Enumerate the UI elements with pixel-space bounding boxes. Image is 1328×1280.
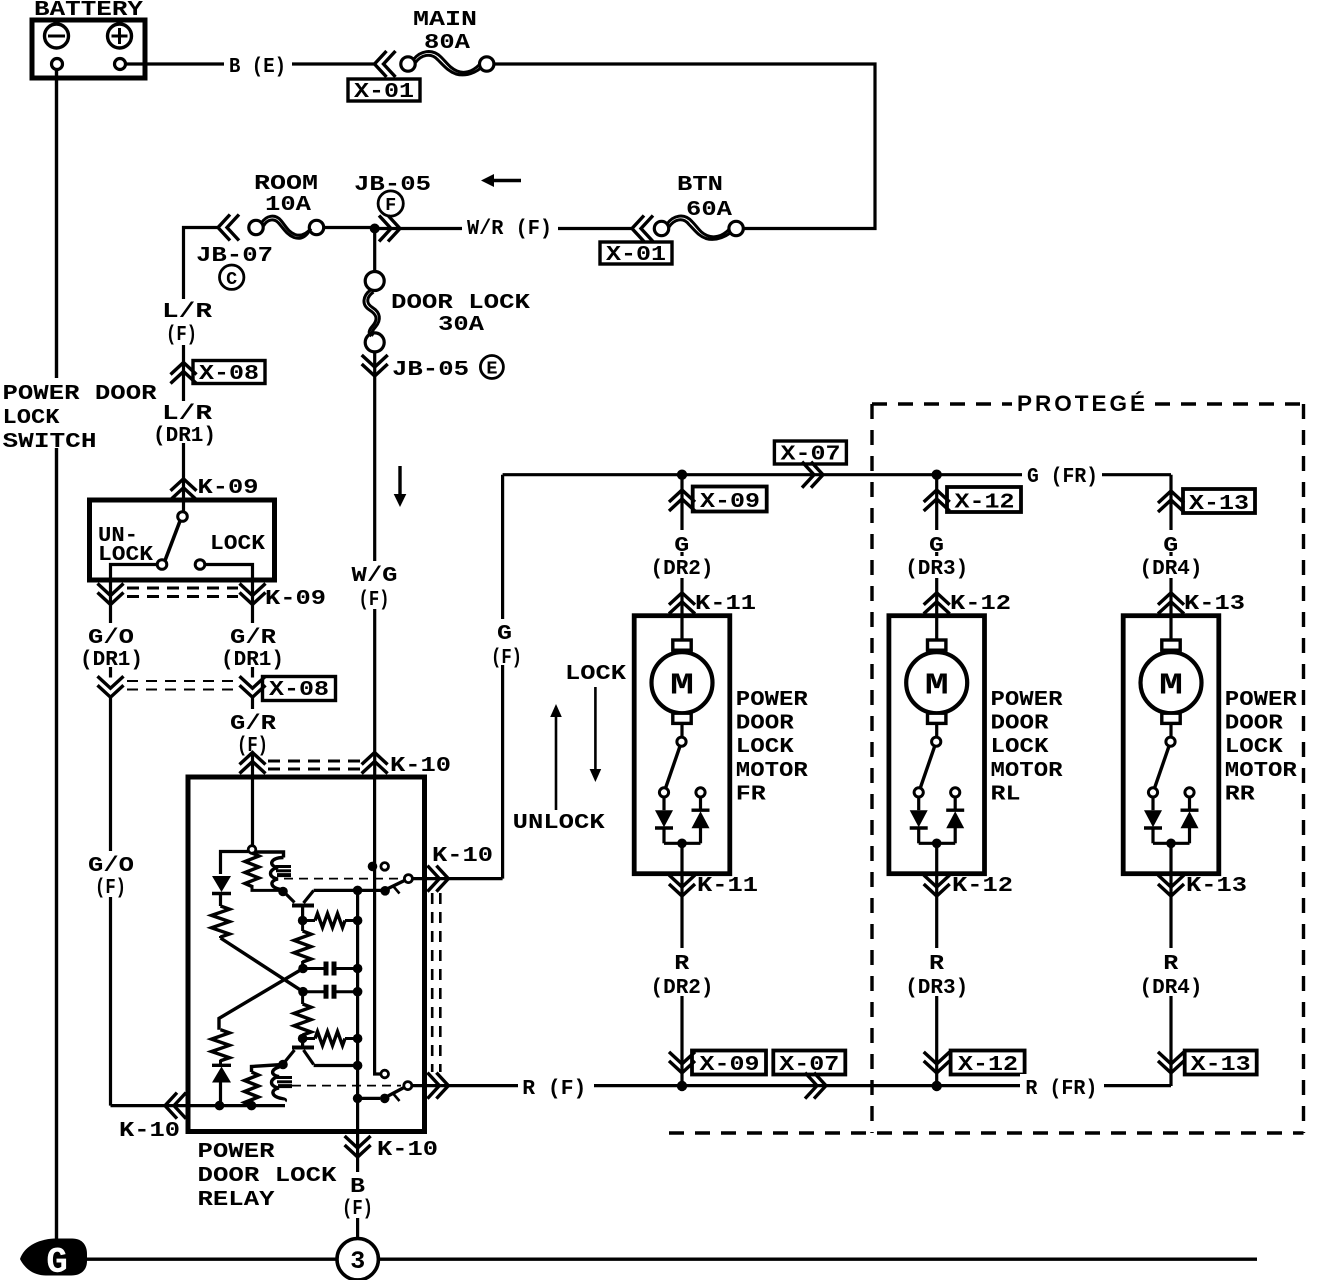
coil2 bottom wire — [250, 1100, 253, 1106]
connector X-12 chevrons (bottom) — [924, 1052, 950, 1073]
wire JB-07 corner — [184, 228, 219, 301]
svg-text:RL: RL — [991, 782, 1021, 806]
svg-text:MOTOR: MOTOR — [1225, 759, 1297, 783]
svg-text:G/R: G/R — [230, 626, 276, 650]
svg-text:G: G — [674, 534, 689, 558]
svg-text:(F): (F) — [342, 1197, 373, 1221]
wire G/R (DR1) — [251, 605, 254, 678]
svg-text:LOCK: LOCK — [3, 406, 60, 430]
fuse MAIN 80A — [401, 57, 415, 71]
battery ground wire (left side) — [55, 70, 58, 1260]
fuse BTN 60A — [729, 221, 743, 235]
connector X-08 chevrons (left) — [98, 676, 124, 697]
switch2 open contact — [381, 1070, 389, 1078]
connector label box X-09 (top) — [693, 487, 767, 512]
capacitor C2 — [298, 987, 308, 997]
svg-text:K-12: K-12 — [950, 592, 1011, 616]
svg-text:(F): (F) — [95, 876, 126, 900]
svg-text:POWER: POWER — [1225, 688, 1297, 712]
battery box — [32, 20, 145, 78]
cross wire B — [219, 969, 303, 1030]
svg-text:K-09: K-09 — [265, 587, 326, 611]
wire into switch — [182, 479, 185, 512]
switch2 moving contact — [380, 1094, 390, 1104]
connector label box X-08 — [263, 677, 336, 701]
switch1 tick — [394, 887, 400, 894]
svg-text:RR: RR — [1225, 782, 1255, 806]
connector label box X-07 (top) — [774, 441, 846, 464]
power door lock motor FR — [634, 616, 730, 874]
svg-text:(DR4): (DR4) — [1140, 557, 1203, 581]
resistor R3 (vertical) — [301, 921, 304, 932]
svg-text:(DR1): (DR1) — [221, 648, 284, 672]
mechanical link dash (coil2 to switch2) — [292, 1085, 401, 1087]
node label L/R (DR1) — [150, 401, 232, 443]
wire C2 to resistor R5 — [301, 992, 304, 1004]
svg-text:K-11: K-11 — [697, 874, 758, 898]
connector label box X-12 (bottom) — [951, 1051, 1025, 1075]
resistor R4 (vertical, left) — [212, 1030, 230, 1061]
svg-text:R (F): R (F) — [522, 1077, 586, 1101]
svg-text:3: 3 — [350, 1247, 365, 1276]
connector X-07 chevrons (top) — [802, 462, 823, 488]
svg-text:LOCK: LOCK — [210, 532, 265, 556]
svg-text:MAIN: MAIN — [413, 8, 477, 32]
svg-text:X-09: X-09 — [700, 490, 760, 514]
svg-text:C: C — [226, 269, 237, 290]
wire R (DR3) — [935, 896, 938, 1086]
svg-text:DOOR LOCK: DOOR LOCK — [391, 291, 530, 315]
svg-text:DOOR LOCK: DOOR LOCK — [198, 1164, 337, 1188]
coil1 top node — [248, 846, 256, 854]
svg-text:(DR1): (DR1) — [80, 648, 143, 672]
svg-text:K-10: K-10 — [432, 844, 493, 868]
connector X-01 chevrons — [375, 51, 396, 77]
annotation UNLOCK with up arrow — [555, 716, 558, 810]
power door lock motor RL — [889, 616, 985, 874]
switch1 lever — [388, 881, 405, 889]
relay bottom internal wire — [188, 1104, 285, 1107]
wire R (DR2) — [680, 896, 683, 1086]
wire R (F) horizontal — [519, 1084, 1171, 1087]
svg-text:R: R — [674, 952, 689, 976]
svg-text:X-13: X-13 — [1191, 1053, 1251, 1077]
B (F) output wire — [356, 1132, 359, 1158]
mechanical link dashes K-09 — [127, 587, 238, 590]
power door lock motor RR — [1123, 616, 1219, 874]
wire G/R (F) down to relay — [251, 697, 254, 752]
wire L/R (F) — [182, 300, 185, 479]
svg-text:K-10: K-10 — [377, 1138, 438, 1162]
svg-text:30A: 30A — [438, 313, 484, 337]
svg-text:(DR3): (DR3) — [905, 976, 968, 1000]
battery minus post — [52, 59, 63, 70]
svg-text:G: G — [1163, 534, 1178, 558]
svg-text:POWER: POWER — [736, 688, 808, 712]
svg-text:K-11: K-11 — [695, 592, 756, 616]
svg-text:DOOR: DOOR — [1225, 712, 1283, 736]
svg-text:G/O: G/O — [88, 854, 134, 878]
switch1 output wire through K-10 — [412, 877, 502, 880]
switch lock contact — [195, 560, 205, 570]
svg-text:LOCK: LOCK — [736, 735, 794, 759]
connector K-09 chevrons below switch (right) — [240, 584, 266, 605]
coil2 top wire — [252, 1065, 284, 1073]
capacitor C1 — [298, 964, 308, 974]
connector label box X-01 (BTN) — [600, 242, 672, 264]
svg-text:(F): (F) — [166, 323, 197, 347]
connector X-08 chevrons — [171, 363, 197, 384]
svg-text:X-01: X-01 — [606, 243, 666, 267]
battery plus post — [115, 59, 126, 70]
svg-text:K-13: K-13 — [1186, 874, 1247, 898]
svg-text:F: F — [385, 195, 396, 216]
svg-text:MOTOR: MOTOR — [991, 759, 1063, 783]
svg-text:(F): (F) — [491, 646, 522, 670]
connector K-10 chevrons (W/G wire) — [362, 753, 388, 774]
svg-text:X-07: X-07 — [779, 1053, 839, 1077]
transistor Q2 — [301, 1039, 304, 1048]
fuse ROOM 10A — [325, 226, 375, 229]
wire W/R (F) from BTN fuse to JB-05 junction — [375, 227, 632, 230]
relay box — [188, 777, 425, 1132]
connector K-13 chevrons (bottom) — [1169, 874, 1172, 896]
svg-text:POWER: POWER — [198, 1140, 275, 1164]
svg-text:K-12: K-12 — [952, 874, 1013, 898]
mechanical link dashed verticals (switch1 to switch2) — [431, 893, 434, 1072]
svg-text:X-12: X-12 — [958, 1053, 1018, 1077]
svg-text:X-08: X-08 — [269, 678, 329, 702]
fuse DOOR LOCK 30A — [365, 272, 384, 291]
svg-text:G/R: G/R — [230, 712, 276, 736]
svg-text:G (FR): G (FR) — [1027, 465, 1098, 489]
wire R (DR4) — [1169, 896, 1172, 1086]
battery plus terminal — [108, 24, 132, 48]
connector label box X-01 — [348, 79, 420, 101]
connector K-10 chevrons (G/R wire) — [240, 753, 266, 774]
wire from MAIN fuse to right edge and down to BTN fuse — [494, 64, 875, 229]
svg-text:G: G — [497, 622, 512, 646]
svg-text:10A: 10A — [265, 193, 311, 217]
svg-text:X-08: X-08 — [199, 362, 259, 386]
svg-text:PROTEGÉ: PROTEGÉ — [1017, 391, 1148, 416]
relay coil 1 — [245, 853, 259, 887]
connector K-11 chevrons — [669, 593, 695, 614]
svg-text:R: R — [1163, 952, 1178, 976]
switch title — [0, 378, 160, 448]
svg-text:L/R: L/R — [162, 402, 212, 426]
svg-text:POWER: POWER — [991, 688, 1063, 712]
coil1 bottom wire — [252, 885, 281, 890]
W/G wire inside relay — [375, 777, 380, 1074]
switch pivot — [178, 512, 188, 522]
svg-text:80A: 80A — [424, 31, 470, 55]
svg-text:(DR3): (DR3) — [905, 557, 968, 581]
connector X-13 chevrons (bottom) — [1158, 1052, 1184, 1073]
connector X-08 chevrons (right) — [240, 676, 266, 697]
switch lever — [165, 521, 180, 561]
switch1 moving contact — [380, 886, 390, 896]
resistor R1 (vertical, left) — [212, 906, 230, 937]
wire G/O (F) down left side — [109, 697, 112, 1105]
collector wire to switch1 — [314, 889, 381, 892]
relay coil 2 — [245, 1072, 259, 1106]
mechanical link dash (coil1 to switch1) — [284, 878, 402, 880]
connector X-09 chevrons (bottom) — [669, 1052, 695, 1073]
right rail — [356, 890, 359, 1131]
svg-text:UNLOCK: UNLOCK — [513, 811, 605, 835]
svg-text:DOOR: DOOR — [736, 712, 794, 736]
svg-text:X-09: X-09 — [700, 1053, 760, 1077]
connector label box X-13 (bottom) — [1185, 1051, 1257, 1075]
connector K-12 chevrons — [924, 593, 950, 614]
svg-text:(DR1): (DR1) — [153, 424, 216, 448]
wire lock contact to right leg — [205, 565, 253, 605]
svg-text:(DR2): (DR2) — [651, 976, 714, 1000]
transistor Q1 — [286, 894, 295, 903]
svg-text:E: E — [486, 359, 497, 380]
svg-text:B: B — [350, 1175, 365, 1199]
connector X-01 chevrons (BTN) — [632, 216, 653, 242]
connector K-12 chevrons (bottom) — [935, 874, 938, 896]
switch1 fixed contact — [368, 862, 378, 872]
switch unlock contact — [157, 560, 167, 570]
svg-text:K-09: K-09 — [198, 476, 259, 500]
switch2 lever — [388, 1088, 404, 1097]
connector X-07 chevrons (bottom) — [805, 1073, 826, 1099]
connector label box X-13 (top) — [1183, 489, 1255, 513]
svg-text:G: G — [46, 1242, 68, 1280]
svg-text:LOCK: LOCK — [1225, 735, 1283, 759]
connector label box X-09 (bottom) — [692, 1051, 766, 1075]
svg-text:(DR4): (DR4) — [1140, 976, 1203, 1000]
svg-text:JB-05: JB-05 — [392, 358, 469, 382]
svg-text:B (E): B (E) — [229, 55, 286, 79]
connector K-09 chevrons below switch (left) — [98, 584, 124, 605]
svg-text:X-01: X-01 — [354, 80, 414, 104]
resistor R2 (horizontal) — [303, 919, 315, 922]
battery minus terminal — [45, 24, 69, 48]
connector JB-05 (E) chevrons — [373, 352, 376, 376]
resistor R6 (horizontal) — [303, 1037, 315, 1040]
svg-text:G: G — [929, 534, 944, 558]
arrow (flow down) — [398, 466, 401, 497]
connector label box X-08 — [193, 361, 265, 384]
wire G (F) vertical — [501, 475, 504, 879]
svg-text:K-10: K-10 — [390, 754, 451, 778]
svg-text:LOCK: LOCK — [565, 662, 626, 686]
wire W/G (F) down to relay — [373, 376, 376, 777]
wire from JB-05 junction down — [373, 229, 376, 272]
wire G (FR) horizontal — [503, 473, 1171, 476]
Q2 collector wire — [314, 1064, 358, 1067]
connector K-13 chevrons — [1158, 593, 1184, 614]
wire unlock contact to left leg — [111, 565, 158, 605]
wire B(E) from battery to MAIN fuse — [126, 62, 375, 65]
wire G/O (DR1) — [109, 605, 112, 678]
K-10 chevrons into relay bottom left — [165, 1093, 186, 1119]
junction circle 3 — [337, 1239, 378, 1280]
svg-text:MOTOR: MOTOR — [736, 759, 808, 783]
ground symbol G — [20, 1239, 87, 1276]
ground wire — [86, 1257, 1257, 1260]
svg-text:BTN: BTN — [677, 173, 723, 197]
junction X-09 — [677, 470, 687, 480]
cross wire A — [221, 938, 304, 992]
svg-text:W/G: W/G — [352, 564, 398, 588]
svg-text:R: R — [929, 952, 944, 976]
svg-text:(DR2): (DR2) — [651, 557, 714, 581]
svg-text:LOCK: LOCK — [991, 735, 1049, 759]
svg-text:G/O: G/O — [88, 626, 134, 650]
svg-text:DOOR: DOOR — [991, 712, 1049, 736]
connector label box X-12 (top) — [947, 487, 1021, 512]
svg-text:K-10: K-10 — [119, 1119, 180, 1143]
wire node to diode1 — [221, 852, 249, 875]
svg-text:60A: 60A — [686, 198, 732, 222]
junction JB-05 (F) — [370, 224, 380, 234]
switch2 output wire through K-10 — [412, 1084, 519, 1087]
svg-text:W/R (F): W/R (F) — [467, 217, 552, 241]
svg-text:X-12: X-12 — [955, 491, 1015, 515]
power door lock switch box — [90, 500, 275, 580]
svg-text:R (FR): R (FR) — [1025, 1077, 1097, 1101]
junction dot on R (F) line — [677, 1081, 687, 1091]
arrow (direction of flow) — [492, 179, 521, 182]
svg-text:JB-05: JB-05 — [354, 173, 431, 197]
svg-text:(F): (F) — [359, 588, 390, 612]
switch2 tick — [394, 1094, 400, 1101]
mechanical link dashes X-08 — [127, 680, 238, 682]
svg-text:RELAY: RELAY — [198, 1188, 275, 1212]
diode1 (cathode down) — [212, 876, 231, 892]
diode D2 (cathode up) — [212, 1064, 231, 1067]
G/R wire inside relay — [251, 777, 254, 845]
connector chevrons (ROOM fuse, JB-07 side) — [218, 215, 239, 241]
svg-text:SWITCH: SWITCH — [3, 430, 97, 454]
svg-text:POWER DOOR: POWER DOOR — [3, 382, 157, 406]
svg-text:FR: FR — [736, 782, 766, 806]
svg-text:K-13: K-13 — [1184, 592, 1245, 616]
mechanical link dashes K-10 — [268, 760, 360, 763]
svg-text:X-13: X-13 — [1189, 492, 1249, 516]
resistor R5 (vertical) — [294, 1004, 311, 1035]
svg-text:L/R: L/R — [162, 300, 212, 324]
connector label box X-07 (bottom) — [773, 1051, 845, 1075]
svg-text:X-07: X-07 — [781, 443, 841, 467]
connector K-11 chevrons (bottom) — [680, 874, 683, 896]
connector K-09 chevrons — [171, 479, 197, 500]
